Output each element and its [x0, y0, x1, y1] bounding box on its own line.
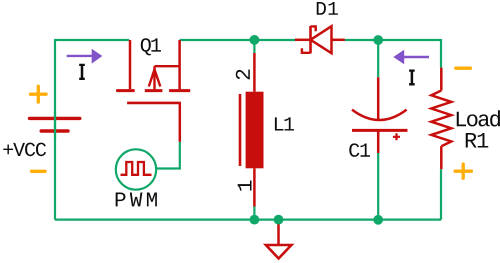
minus mark battery [32, 170, 46, 173]
battery BT +VCC [30, 118, 80, 131]
label D1 [317, 2, 338, 15]
wire: L1 pin 1 red [253, 168, 256, 206]
wire: top rail middle segment [180, 39, 296, 41]
PWM pulse waveform [121, 162, 152, 175]
capacitor C1 (polarized) [352, 110, 408, 141]
label PWM [116, 193, 157, 207]
label R1 [466, 133, 489, 148]
wire: battery branch overlay across plates [54, 112, 56, 138]
wire: ground stem red [277, 220, 280, 245]
wire: C1 bottom pin red [377, 131, 380, 153]
pin number 2 (L1) [236, 70, 250, 80]
wire: L1 top stub [253, 40, 255, 53]
label Q1 [141, 38, 161, 55]
current label I left [79, 65, 85, 79]
wire: Q1 gate drop red part [179, 103, 182, 142]
label Load [457, 110, 500, 126]
wire: C1 top green [377, 40, 379, 77]
current label I right [409, 71, 415, 85]
current arrow right [393, 50, 429, 65]
label +VCC [3, 143, 46, 157]
minus mark load top [456, 67, 471, 70]
wire: D1 right pin red [332, 39, 345, 42]
wire: R1 bottom green [440, 169, 442, 219]
junction node: top C1 [373, 35, 383, 45]
transistor Q1 (NMOS) [116, 66, 190, 103]
current arrow left [67, 49, 103, 64]
ground symbol [266, 245, 292, 259]
wire: top rail left segment [54, 39, 129, 41]
plus mark battery [31, 86, 47, 102]
wire: top rail right segment [345, 39, 441, 41]
wire: L1 bottom stub [253, 207, 255, 220]
wire: L1 pin 2 red [253, 53, 256, 92]
resistor R1 zigzag [431, 91, 451, 147]
wire: Q1 drain pin red [129, 40, 132, 89]
wire: C1 bottom green [377, 153, 379, 220]
plus mark load bottom [455, 164, 471, 178]
junction node: top L1 [250, 35, 260, 45]
label C1 [349, 143, 370, 157]
wire: D1 left pin red [295, 39, 311, 42]
junction node: bottom C1 [373, 215, 383, 225]
inductor L1 body [240, 92, 264, 169]
wire: battery branch vertical left [54, 40, 56, 220]
wire: PWM output horizontal [156, 167, 181, 169]
wire: R1 top pin red [440, 68, 443, 91]
junction node: bottom ground [274, 215, 284, 225]
PWM source circle [116, 149, 156, 189]
wire: bottom rail [55, 219, 441, 221]
wire: Q1 source pin red [178, 40, 181, 89]
wire: right branch drop [440, 39, 442, 68]
wire: gate drop green part [179, 142, 181, 169]
label L1 [275, 117, 294, 130]
wire: R1 bottom pin red [440, 146, 443, 169]
junction node: bottom L1 [250, 215, 260, 225]
diode D1 (Schottky) [302, 26, 332, 53]
pin number 1 (L1) [238, 181, 252, 191]
wire: C1 top pin red [377, 77, 380, 120]
